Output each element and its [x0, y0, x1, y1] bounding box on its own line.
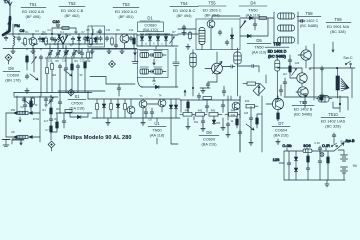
ground G4 [120, 49, 124, 54]
label T57 [292, 100, 314, 117]
wire psu left link [279, 162, 284, 164]
wire S3 top [192, 50, 194, 97]
transistor T52 [59, 36, 68, 49]
ferrite rod coil LA2 (LW) [6, 135, 40, 138]
wire battery [338, 150, 344, 180]
svg-text:a: a [145, 43, 147, 46]
capacitor C38 [221, 103, 225, 108]
svg-text:ED 1502 A.G: ED 1502 A.G [115, 10, 137, 14]
resistor R18 [96, 102, 99, 111]
label T56 [265, 42, 289, 59]
svg-text:(BA 170): (BA 170) [143, 28, 159, 32]
tuning meter M1 [253, 84, 265, 96]
ground G15 [201, 126, 205, 131]
wire c44 [320, 151, 328, 180]
wire y18 [240, 17, 274, 19]
lamp LP1 [320, 153, 324, 157]
svg-text:(BC 328): (BC 328) [330, 30, 346, 34]
node dot n1 [51, 33, 52, 34]
resistor R8 [26, 55, 29, 64]
svg-text:(BC 549B): (BC 549B) [294, 113, 313, 117]
svg-text:T4: T4 [159, 95, 163, 98]
capacitor C14b [253, 22, 257, 27]
diode D12 [116, 103, 119, 109]
oscillator can box [88, 26, 105, 47]
svg-text:T53: T53 [122, 2, 130, 7]
wire T52 leads [65, 34, 67, 49]
wire verticals [27, 49, 41, 89]
wire Q2 [301, 68, 303, 86]
ground G16 [221, 125, 225, 130]
tiny specks t53 [106, 29, 134, 32]
ground G5 [107, 49, 111, 54]
wire T53 [103, 34, 137, 49]
wire x352 down [351, 68, 353, 98]
wire x348 [347, 97, 349, 110]
arrow tap X1 [134, 49, 136, 55]
diode D2c [41, 37, 44, 43]
svg-text:(BF 451): (BF 451) [119, 15, 135, 19]
svg-text:(AA 118): (AA 118) [150, 133, 165, 137]
trimmer arrows at can edge [240, 21, 246, 28]
diode D4 [248, 16, 254, 19]
rail x240 [239, 96, 241, 152]
bus y99 [88, 98, 137, 100]
svg-text:TN60: TN60 [152, 129, 161, 133]
svg-text:D6: D6 [206, 130, 212, 135]
trimmer cap TC5 [56, 50, 61, 57]
svg-text:T54: T54 [180, 1, 188, 6]
svg-text:2k2: 2k2 [28, 38, 33, 41]
capacitor C22 [117, 86, 121, 91]
transistor Q1 [301, 50, 311, 60]
capacitor C26 [283, 80, 287, 85]
junction dots s1 [50, 95, 70, 113]
trimmer cap TC4 [48, 50, 53, 57]
wire c46 [319, 151, 321, 154]
capacitor C16 [39, 55, 43, 60]
capacitor C13 [218, 30, 222, 35]
svg-text:1k: 1k [231, 120, 234, 123]
svg-text:TN50: TN50 [248, 9, 257, 13]
svg-text:ED 1402 L/AS: ED 1402 L/AS [321, 120, 346, 124]
bus lower y48 [3, 48, 103, 50]
junction dot s3 [192, 87, 193, 88]
capacitor C8b [99, 36, 103, 41]
rail x228 [227, 96, 229, 120]
label T58 [297, 11, 321, 28]
svg-text:50: 50 [80, 74, 83, 77]
wire T51 collector [32, 34, 34, 49]
svg-text:C6: C6 [67, 34, 71, 37]
wire x324 [321, 68, 323, 100]
vertical drops to y92 bus [52, 69, 85, 92]
resistor R20 [124, 102, 127, 111]
svg-text:Sw-C: Sw-C [343, 56, 353, 60]
svg-text:(BC 328): (BC 328) [325, 125, 341, 129]
svg-text:ED 9901 N/A: ED 9901 N/A [327, 25, 350, 29]
svg-text:1n: 1n [79, 43, 82, 46]
ground G17 [249, 140, 253, 145]
wire y97 link [284, 96, 348, 98]
ground G10 [201, 88, 205, 93]
svg-text:CO680: CO680 [144, 24, 156, 28]
svg-text:1k: 1k [309, 68, 312, 71]
ground G12 [3, 140, 10, 147]
wire left entry [178, 30, 198, 34]
diode D1a [140, 36, 143, 42]
wire stub x333 top [332, 42, 334, 52]
bus y49 to filter box [92, 48, 137, 50]
diamond jack J2 [68, 89, 75, 96]
arrow between rows [153, 59, 155, 65]
bus y100 [180, 99, 240, 101]
diode D1b [148, 36, 151, 42]
label D5 [247, 38, 271, 54]
bus y91 [58, 90, 105, 92]
svg-text:C11: C11 [106, 29, 111, 32]
svg-text:C17: C17 [80, 60, 85, 63]
svg-text:(BF 495): (BF 495) [26, 15, 42, 19]
wire c35 [137, 108, 180, 118]
coil L3 in can [92, 26, 93, 44]
wire r25b [257, 114, 262, 128]
wire y91 drops [60, 91, 88, 99]
resistor R17 horizontal [65, 110, 72, 113]
capacitor C12 [129, 36, 133, 41]
svg-text:C2: C2 [14, 36, 18, 39]
svg-text:(BC 548B): (BC 548B) [300, 24, 319, 28]
tiny specks s1 [44, 104, 60, 132]
wire T56 [205, 52, 217, 82]
svg-text:ED 1503 C: ED 1503 C [203, 9, 222, 13]
svg-text:T52: T52 [68, 1, 76, 6]
wire gnd drops [188, 116, 237, 128]
capacitor C4b [53, 38, 57, 43]
wire links [69, 112, 89, 117]
svg-text:C10: C10 [52, 20, 59, 24]
tiny specks u1 [140, 95, 163, 122]
svg-text:1k8: 1k8 [244, 112, 249, 115]
wire x237 down [238, 64, 260, 96]
svg-text:C15: C15 [48, 60, 53, 63]
label T510 [321, 112, 346, 129]
IFT S3 vertical body [190, 53, 196, 67]
label D6 [199, 130, 219, 146]
svg-text:T59: T59 [334, 17, 342, 22]
svg-text:C7: C7 [45, 129, 49, 132]
svg-text:R9: R9 [54, 118, 58, 121]
svg-text:(BA 216): (BA 216) [202, 142, 218, 146]
capacitor C4 [50, 36, 54, 41]
node dot n3 [339, 103, 341, 105]
resistor R14 [289, 65, 292, 74]
svg-text:D2: D2 [74, 31, 78, 34]
capacitor C2 [17, 36, 21, 41]
diode D16 [275, 87, 277, 89]
wire x51 chain [50, 96, 52, 140]
box IF can S4 [196, 19, 240, 50]
svg-text:(AA 119): (AA 119) [252, 50, 267, 54]
capacitor C8 [95, 36, 99, 41]
diode D3 [230, 34, 233, 40]
capacitor C32 [44, 97, 48, 102]
IFT S2 coil bottom [278, 37, 295, 43]
resistor R24b [225, 113, 240, 117]
IFT S2 coil mid [278, 25, 295, 31]
capacitor C15 [298, 19, 305, 22]
capacitor C24 [249, 64, 256, 67]
ground G1 [11, 49, 15, 54]
IFT S2 coil top [278, 13, 295, 19]
capacitor C5 on link [56, 25, 60, 28]
wire c26 [284, 78, 286, 96]
capacitor C32b [23, 103, 27, 108]
capacitor C45 [306, 166, 310, 171]
svg-text:FM: FM [14, 24, 20, 28]
IF coil S4a [199, 28, 205, 45]
svg-text:O.IR: O.IR [322, 144, 330, 148]
coil L1 [13, 34, 14, 49]
resistor R24 [209, 113, 222, 117]
wire corner w1 [2, 139, 10, 141]
wire c35b [145, 108, 147, 118]
resistor R28 [327, 156, 330, 165]
capacitor C37 [205, 104, 209, 109]
wires in can [202, 28, 232, 50]
transistor Q2 [297, 73, 307, 83]
ground G18 [276, 139, 280, 144]
capacitor C31 [182, 25, 186, 30]
svg-text:T.V.: T.V. [4, 0, 10, 4]
capacitor C1 [4, 36, 8, 41]
diode D14 [294, 156, 297, 162]
arrow feedback [246, 124, 254, 130]
ground G7 [182, 30, 186, 35]
svg-text:R5: R5 [116, 29, 120, 32]
bus y34 extension [103, 33, 137, 35]
capacitor C7 [83, 36, 87, 41]
svg-text:(BF 462): (BF 462) [65, 14, 81, 18]
capacitor C20b [64, 66, 68, 71]
transistor T57 [232, 102, 240, 110]
svg-text:S1: S1 [74, 94, 80, 99]
wire r26 [277, 110, 279, 121]
svg-text:R8: R8 [55, 60, 59, 63]
bus y58 [45, 57, 92, 59]
tick below box [153, 78, 156, 82]
ground G8 [25, 88, 29, 93]
svg-text:ED 1502 B.C: ED 1502 B.C [173, 9, 196, 13]
svg-text:C51: C51 [194, 121, 199, 124]
svg-text:b: b [153, 43, 155, 46]
bus y68 [309, 67, 355, 69]
svg-text:T57: T57 [299, 100, 307, 105]
svg-text:1k: 1k [46, 40, 49, 43]
svg-text:C24: C24 [295, 62, 300, 65]
svg-text:ED 1502 C.B: ED 1502 C.B [61, 9, 84, 13]
capacitor C35 [150, 110, 154, 115]
wire b2 [223, 86, 225, 96]
volume pot VR1 [336, 68, 349, 98]
wire r27 [307, 153, 309, 180]
resistor R15b [30, 100, 33, 109]
diamond jack D9 [5, 54, 12, 61]
svg-text:D1: D1 [147, 16, 153, 21]
diode D13 [169, 104, 172, 110]
bus y46 [137, 45, 178, 47]
diode D2 [77, 36, 80, 42]
svg-text:T510: T510 [328, 112, 338, 117]
resistor R7 horizontal [259, 17, 266, 20]
svg-text:CO604: CO604 [275, 129, 288, 133]
svg-text:T58: T58 [305, 11, 313, 16]
svg-text:D9: D9 [8, 66, 14, 71]
wire r16b [52, 113, 58, 132]
diode D10 [76, 115, 82, 118]
capacitor C9b in can [98, 29, 102, 34]
svg-text:C8: C8 [148, 119, 152, 122]
label T54 [170, 1, 198, 18]
resistor R9 [87, 51, 90, 60]
svg-text:C5: C5 [44, 104, 48, 107]
svg-text:T51: T51 [29, 2, 37, 7]
resistor R3 horizontal [62, 27, 69, 30]
trimmer arrow TC2 [170, 37, 175, 44]
svg-text:9V: 9V [353, 164, 358, 168]
diode bar ticks [140, 33, 167, 35]
wire L4 [276, 58, 278, 97]
tiny specks d6 [185, 110, 236, 126]
svg-text:D5: D5 [256, 38, 262, 43]
resistor R16b [56, 121, 59, 130]
resistor R5 [111, 37, 114, 46]
trimmer TC1 [56, 35, 61, 42]
transistor T55 [207, 20, 215, 28]
resistor R22 [180, 113, 195, 117]
svg-text:0,1: 0,1 [60, 31, 64, 34]
diode D5 [246, 34, 252, 37]
capacitor C33 [49, 117, 53, 122]
wire extra drops [47, 58, 72, 93]
wire antenna feed [12, 24, 14, 34]
capacitor C20 [76, 64, 80, 69]
capacitor C23 [228, 65, 235, 68]
diamond jack J3 [109, 61, 116, 68]
wire x340 [339, 96, 341, 112]
wire swd [333, 139, 335, 144]
wire bus y29 [178, 28, 196, 30]
wire c41b [304, 97, 306, 108]
capacitor C35b [144, 110, 148, 115]
resistor R26 [277, 112, 280, 121]
capacitor C41b [303, 100, 307, 105]
battery B1 [341, 155, 348, 161]
wire c39 [240, 106, 251, 152]
bus y97 lower-left [14, 96, 58, 98]
wire t57 [239, 96, 241, 118]
wire D2 [78, 34, 80, 49]
label T59 [326, 17, 351, 34]
ground G19 [325, 180, 329, 187]
resistor R15 [32, 97, 35, 106]
bottom stub row b2 [222, 89, 226, 94]
diode D2d in can [94, 37, 97, 43]
wire d4-d5 link [258, 18, 268, 36]
capacitor C41 [303, 94, 307, 97]
label D7 [272, 121, 290, 138]
wire y68 base feed [277, 67, 302, 69]
ceramic filter box outline [138, 50, 169, 78]
transistor T5x [127, 106, 135, 114]
svg-text:2p: 2p [54, 43, 57, 46]
capacitor C47 [173, 62, 179, 66]
resistor R25 horizontal [246, 105, 258, 108]
diode D1d [164, 36, 167, 42]
capacitor C46 [318, 146, 322, 151]
svg-text:C4: C4 [47, 29, 51, 32]
resistor R5b [133, 37, 136, 46]
wire matrix verticals [97, 99, 131, 118]
wire stubs below bus44 [50, 41, 97, 49]
IFT S2 rail right [297, 12, 299, 44]
svg-text:CO600: CO600 [203, 138, 215, 142]
svg-text:(BF 494): (BF 494) [205, 14, 221, 18]
rail x262 [261, 96, 263, 152]
wire down x41 [40, 88, 42, 96]
wire cluster stubs [25, 97, 46, 114]
svg-text:C52: C52 [216, 122, 221, 125]
svg-text:D4: D4 [250, 1, 256, 6]
transistor Q3 [298, 87, 308, 97]
svg-text:C3: C3 [35, 30, 39, 33]
diode D15 [294, 167, 297, 173]
wire d13 [170, 99, 172, 118]
rail x17 [16, 96, 18, 113]
resistor R4 [90, 37, 93, 46]
svg-text:T3: T3 [140, 95, 144, 98]
trimmer TC3 [32, 57, 37, 64]
wire L-path [90, 77, 135, 85]
transistor T5b [158, 99, 166, 107]
svg-text:R43: R43 [211, 110, 216, 113]
psu box outline [284, 151, 345, 180]
svg-text:R1: R1 [25, 31, 29, 34]
capacitor C34b [62, 119, 66, 124]
bus y92.5 [14, 92, 92, 94]
svg-text:R5: R5 [86, 29, 90, 32]
ground G13b [141, 120, 145, 125]
resistor R16c [50, 125, 53, 134]
antenna A1 [3, 2, 12, 35]
svg-text:(BA 216): (BA 216) [274, 134, 290, 138]
wire verticals [181, 96, 231, 120]
trimmer cap TC6 [64, 50, 69, 57]
wire joins [137, 34, 170, 46]
resistor R6 [189, 31, 192, 40]
wire r20b [187, 100, 189, 113]
wire top feed y16 [212, 16, 240, 19]
diode D11 [102, 103, 105, 109]
wire d14 chain [295, 151, 297, 180]
svg-text:2: 2 [153, 83, 155, 86]
wire d13b [175, 99, 177, 118]
resistor R16 [50, 107, 53, 116]
label D4 [239, 1, 267, 18]
wire down x119 [118, 84, 120, 96]
diode D1c [156, 36, 159, 42]
IFT S2 rail left [273, 12, 275, 44]
